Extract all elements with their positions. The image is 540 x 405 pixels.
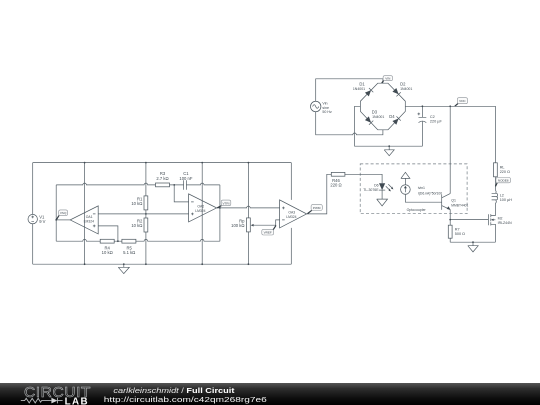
LED D6 TL-3076E [363, 183, 393, 192]
wire R46 to LED anode [345, 174, 382, 183]
junction [145, 162, 147, 164]
ground bottom right [468, 242, 478, 252]
op-amp OA2 LM324 [189, 194, 217, 222]
resistor R7 500 [448, 220, 465, 243]
junction [123, 263, 125, 265]
junction [248, 162, 250, 164]
resistor R46 220 [330, 172, 345, 187]
potentiometer Rp 100k [231, 163, 253, 265]
wire OA3 power stub vertical [290, 163, 292, 265]
junction [201, 263, 203, 265]
voltage source V1 9V [28, 214, 46, 223]
svg-text:10 kΩ: 10 kΩ [102, 250, 113, 255]
svg-text:50 Hz: 50 Hz [322, 110, 332, 114]
wire Q1 collector to VDC rail [449, 106, 451, 193]
wire bridge left vertex to ground line [355, 106, 423, 146]
wire R1 R2 column [145, 163, 147, 265]
resistor R5 5.1k [122, 239, 136, 255]
transistor Q1 MMBT4401 NPN [442, 194, 469, 210]
node VREF [262, 225, 276, 235]
svg-text:http://circuitlab.com/c42qm268: http://circuitlab.com/c42qm268rg7e6 [104, 395, 267, 404]
wire left rail lower [32, 224, 34, 264]
svg-text:1N4001: 1N4001 [372, 115, 384, 119]
svg-text:220 µF: 220 µF [430, 120, 443, 124]
diode D3 1N4001 [365, 116, 374, 125]
junction [145, 263, 147, 265]
junction [145, 213, 147, 215]
svg-text:VTRI: VTRI [222, 201, 229, 205]
wire VSQ vertical [55, 185, 57, 241]
op-amp U OA1 LM324 (pointing left) [70, 206, 98, 234]
wire Vin bottom to bridge bottom vertex with hop [316, 112, 383, 135]
wire feedback vertical x220 [219, 185, 221, 241]
wire OA1 output to VSQ corner [56, 219, 70, 221]
svg-text:100 kΩ: 100 kΩ [231, 223, 244, 228]
resistor R4 10k [100, 239, 114, 255]
wire bottom supply rail left block [33, 263, 292, 265]
wire top supply rail left block [33, 162, 292, 164]
junction [449, 219, 451, 221]
svg-text:Optocoupler: Optocoupler [407, 208, 427, 212]
node PWM [308, 204, 323, 213]
junction [472, 241, 474, 243]
capacitor C2 220uF polarized [418, 106, 443, 146]
svg-text:OA2: OA2 [197, 205, 204, 209]
node VTRI [217, 200, 231, 208]
wire integrator input line with hops [56, 183, 220, 185]
resistor RL 220 [494, 163, 511, 177]
wire RL to L2 [494, 177, 496, 191]
wire OA1 plus input drop [98, 226, 118, 241]
wire OA2 power stub vertical [201, 163, 203, 265]
diode D4 1N4001 [392, 116, 401, 125]
svg-text:LM324: LM324 [286, 215, 296, 219]
inductor L2 100uH [492, 190, 513, 203]
wire R4 R5 line with hops [56, 239, 220, 241]
svg-text:VDC: VDC [459, 99, 466, 103]
node VSQ [57, 210, 68, 220]
svg-text:2.7 kΩ: 2.7 kΩ [156, 176, 168, 181]
svg-text:D6: D6 [374, 184, 379, 188]
junction [248, 263, 250, 265]
svg-text:MMBT4401: MMBT4401 [451, 203, 468, 207]
wire OA1 power stub vertical [84, 163, 86, 265]
wire bias midline OA1- to OA2+ [98, 213, 188, 215]
wire gate node to M2 gate [450, 219, 488, 221]
svg-text:Q1: Q1 [451, 199, 456, 203]
wire OA2 output VTRI line with hop over pot [217, 206, 280, 208]
svg-text:500 Ω: 500 Ω [455, 232, 465, 236]
junction [449, 105, 451, 107]
svg-text:100 µH: 100 µH [500, 198, 513, 202]
op-amp OA3 LM324 [280, 200, 307, 228]
junction [388, 145, 390, 147]
ground left block [118, 264, 129, 273]
svg-text:220 Ω: 220 Ω [500, 170, 510, 174]
svg-text:LAB: LAB [65, 396, 89, 405]
svg-text:220 Ω: 220 Ω [330, 182, 341, 187]
bridge rectifier octagon body [360, 83, 405, 130]
wire OA2 minus input stub [174, 185, 188, 202]
resistor R2 10k [131, 218, 147, 232]
svg-text:5.1 kΩ: 5.1 kΩ [123, 250, 135, 255]
wire Vin top to bridge top vertex [316, 79, 383, 102]
ground below LED [377, 190, 388, 206]
diode D1 1N4001 [365, 88, 374, 97]
footer logo diode [51, 398, 57, 404]
svg-text:VREF: VREF [264, 231, 272, 235]
wire bottom right ground line [450, 241, 495, 243]
junction [117, 240, 119, 242]
svg-text:L2: L2 [500, 194, 504, 198]
transistor M2 IRLZ44N NMOS [488, 204, 512, 243]
wire current source to Q1 base [405, 194, 441, 202]
node VIN [382, 76, 393, 83]
svg-text:LM324: LM324 [195, 209, 205, 213]
junction [55, 219, 57, 221]
footer logo resistor zigzag [21, 398, 52, 403]
svg-text:VSQ: VSQ [60, 211, 67, 215]
svg-text:C2: C2 [430, 115, 435, 119]
wire OA3 output to R46 riser [307, 174, 332, 214]
wire Q1 emitter to gate node [449, 210, 451, 220]
svg-text:ivin1: ivin1 [418, 186, 425, 190]
footer bar [0, 383, 540, 405]
junction [84, 263, 86, 265]
svg-text:M2: M2 [498, 217, 503, 221]
svg-text:D4: D4 [389, 114, 395, 119]
node VDC [455, 98, 468, 107]
current source ivin1 [401, 172, 443, 195]
resistor R1 10k [131, 196, 147, 210]
capacitor C1 100nF [179, 171, 192, 190]
junction [422, 105, 424, 107]
voltage source Vin sine 50Hz [311, 101, 332, 114]
svg-text:100 nF: 100 nF [179, 176, 192, 181]
junction [84, 162, 86, 164]
wire pot wiper to OA3 minus [253, 220, 279, 225]
svg-text:IRLZ44N: IRLZ44N [498, 221, 512, 225]
svg-text:PWM: PWM [313, 206, 321, 210]
junction [201, 162, 203, 164]
svg-text:carlkleinschmidt / Full Circui: carlkleinschmidt / Full Circuit [113, 386, 235, 395]
svg-text:TL-3076E: TL-3076E [363, 188, 379, 192]
wire left rail upper [32, 163, 34, 215]
svg-text:I(D6.nA)*50/100: I(D6.nA)*50/100 [418, 191, 442, 195]
junction [219, 207, 221, 209]
svg-text:RL: RL [500, 166, 505, 170]
svg-text:10 kΩ: 10 kΩ [131, 223, 142, 228]
ground below bridge [384, 146, 394, 156]
optocoupler dashed box [360, 164, 467, 214]
node NODE8 [496, 178, 511, 187]
diode D2 1N4001 [392, 88, 401, 97]
svg-text:10 kΩ: 10 kΩ [131, 201, 142, 206]
svg-text:OA1: OA1 [86, 215, 93, 219]
wire VDC rail [405, 106, 495, 163]
svg-text:VIN: VIN [385, 77, 390, 81]
svg-text:NODE8: NODE8 [498, 179, 509, 183]
svg-text:1N4001: 1N4001 [400, 87, 412, 91]
svg-text:9 V: 9 V [39, 219, 45, 224]
svg-text:R7: R7 [455, 227, 460, 231]
svg-text:1N4001: 1N4001 [353, 87, 365, 91]
svg-text:LM324: LM324 [84, 219, 94, 223]
resistor R3 2.7k [156, 171, 170, 187]
svg-text:OA3: OA3 [288, 211, 295, 215]
junction [173, 184, 175, 186]
